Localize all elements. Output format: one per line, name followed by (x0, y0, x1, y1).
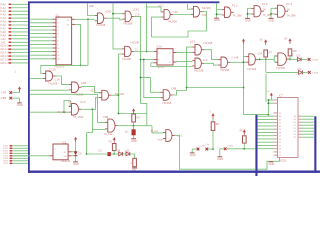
connector J2 pins with wires (3, 145, 28, 165)
wire U21 output long to U22 (118, 125, 152, 127)
svg-text:1-7647: 1-7647 (312, 59, 318, 61)
svg-text:P1.6: P1.6 (262, 2, 268, 6)
svg-text:1-7648: 1-7648 (312, 72, 318, 74)
wire U17 output to U18 (258, 59, 267, 61)
supply VCC arrow at IC5 (74, 137, 77, 143)
x no-connect C-360 (197, 144, 210, 150)
svg-text:C-361: C-361 (227, 145, 234, 147)
and-gate U1 (43, 67, 60, 85)
and-gate U7 (122, 8, 139, 26)
and-gate U16 (218, 57, 239, 73)
svg-text:D3: D3 (297, 53, 301, 57)
bus B4 right vertical (314, 116, 316, 173)
wire IC2 pin3 jog to U15 input B (151, 63, 192, 67)
svg-text:IC2A: IC2A (157, 46, 163, 49)
bus B2 bottom horizontal (28, 171, 320, 173)
svg-text:GND: GND (268, 18, 274, 22)
x second mark (205, 148, 208, 151)
svg-text:D1/7: D1/7 (3, 163, 8, 165)
and-gate U3 (99, 90, 124, 100)
svg-text:R8: R8 (293, 49, 297, 53)
and-gate U10 (222, 4, 242, 18)
svg-text:74LS08: 74LS08 (194, 69, 204, 73)
wire bus to U6 input A (88, 4, 95, 16)
capacitor C3 electrolytic (125, 126, 136, 136)
wire tap to U19 input A (140, 77, 161, 93)
svg-text:74_1532: 74_1532 (73, 115, 84, 119)
wire diode to ground (75, 156, 77, 162)
ground GND at IC5 (73, 162, 79, 166)
supply VCC arrow at IC3 (267, 91, 273, 96)
wire J2 pin5 to IC5 input (13, 155, 50, 157)
svg-text:GND: GND (17, 103, 23, 107)
svg-text:74LS08: 74LS08 (48, 81, 58, 85)
svg-text:3: 3 (158, 59, 159, 61)
supply VCC arrow at J-P5 (18, 86, 21, 92)
svg-text:IC7: IC7 (279, 95, 283, 98)
svg-text:45.6: 45.6 (91, 89, 96, 92)
svg-text:C4D: C4D (202, 13, 207, 17)
svg-text:5V: 5V (284, 39, 287, 41)
and-gate U14 (190, 39, 213, 55)
and-gate U18 (275, 53, 293, 70)
wire U1 output to U2 input A (56, 76, 69, 85)
wire U16 output to U17 inputs (230, 61, 243, 63)
wire bus to IC1 input pins (30, 19, 52, 59)
ground GND at U12 (268, 18, 274, 22)
bus B3 mid vertical (255, 114, 257, 176)
and-gate U17 (246, 53, 263, 71)
ground GND at net C-360 (190, 149, 196, 157)
svg-text:C6: C6 (68, 99, 72, 103)
wire U22 output down and along bottom (175, 136, 256, 170)
svg-text:1C1A: 1C1A (49, 67, 56, 71)
svg-text:V0: V0 (64, 152, 66, 154)
svg-text:p3.0: p3.0 (190, 39, 196, 43)
wire U19 output up (173, 91, 187, 96)
svg-text:D1: D1 (298, 67, 302, 71)
ground GND under C3 (131, 139, 137, 143)
svg-text:4-B6: 4-B6 (1, 96, 7, 100)
diode D7 small (126, 150, 131, 155)
ground GND at U10 (214, 18, 220, 22)
wire U14 output to U16 input A (204, 50, 218, 60)
and-gate U13 (122, 41, 140, 61)
wire U19 output up to U14 input A (187, 47, 193, 90)
wire between x and R5 junction (208, 148, 213, 150)
svg-text:J-P5: J-P5 (1, 91, 7, 95)
and-gate U12 (275, 2, 296, 17)
bus B1 left vertical (28, 1, 30, 173)
svg-text:C1.6: C1.6 (80, 100, 86, 104)
wire R3 bottom (113, 151, 115, 155)
svg-text:18: 18 (67, 25, 69, 27)
svg-text:74_386: 74_386 (233, 14, 242, 18)
svg-text:1C4D: 1C4D (105, 9, 112, 13)
svg-text:74LS08: 74LS08 (220, 68, 230, 72)
wire U12 inputs tied to ground (270, 8, 275, 18)
svg-text:A18 1-7: A18 1-7 (0, 62, 9, 65)
wire bus to U2 input B (30, 89, 69, 91)
x input 4-B6 to ground (1, 96, 20, 102)
wire bus to U9 input A (188, 4, 191, 9)
wire around to U1 input A (41, 65, 88, 73)
supply VCC arrow above R7 (260, 39, 267, 45)
svg-text:74LS08: 74LS08 (203, 41, 213, 45)
wire U2 output to U3 input A (81, 87, 99, 93)
IC1 left pin stubs with pin numbers (53, 19, 61, 61)
and-gate U21 (103, 115, 118, 136)
wire U6 output to U7 input B (107, 18, 123, 20)
svg-text:74HC14: 74HC14 (61, 159, 71, 163)
wire U18 inputs tied (267, 56, 275, 62)
wire lower diode net (266, 71, 299, 73)
svg-text:74LS08: 74LS08 (123, 21, 133, 25)
supply VCC arrow above R6 (240, 129, 246, 135)
svg-text:74_132: 74_132 (104, 132, 113, 136)
svg-text:C1A: C1A (55, 77, 60, 81)
wire U20 branch down to cap net (86, 129, 93, 155)
svg-text:74LS08: 74LS08 (168, 20, 178, 24)
svg-text:IC5: IC5 (63, 141, 67, 144)
wire IC3 right pins to bus B4 (302, 116, 315, 137)
svg-text:C4B: C4B (171, 86, 176, 90)
wire to x C-360 (192, 148, 196, 150)
resistor R5 (211, 122, 219, 131)
x no-connect net 1-7648 (308, 71, 318, 74)
svg-text:C-6: C-6 (135, 13, 140, 17)
wire diode D6 to D7 (123, 153, 126, 155)
wire R7 bottom to net (265, 57, 267, 59)
svg-text:6: 6 (169, 62, 170, 64)
wire R5 down to X net (212, 118, 214, 149)
x no-connect C-361 (224, 145, 234, 150)
and-gate U15 (192, 58, 208, 73)
diode D5 at IC5 (74, 151, 83, 155)
svg-text:2: 2 (158, 52, 159, 54)
wire mid horizontal to IC3 column (244, 114, 270, 116)
connector J1 pins 1-18 with wires to bus (0, 3, 28, 73)
resistor R7 (264, 50, 273, 57)
wire bus to U1 input B (30, 78, 43, 80)
svg-text:R2: R2 (137, 115, 141, 119)
wire staple to U20 input A (64, 101, 70, 113)
wire to x C-361 (220, 148, 224, 150)
svg-text:GND: GND (73, 162, 79, 166)
ground GND at net C-361 (217, 149, 223, 161)
wire cap to diode D6 (111, 153, 119, 155)
ground GND at U11 (245, 18, 251, 22)
svg-text:IC1: IC1 (56, 14, 61, 17)
svg-text:GND: GND (245, 18, 251, 22)
ground bar under R9 (132, 167, 138, 172)
resistor R3 (109, 140, 116, 150)
IC IC5 (49, 141, 72, 163)
IC1 right pin stubs (72, 19, 76, 24)
wire from bus down to IC2 data (146, 3, 148, 52)
wire bus to U21 input A (30, 94, 105, 122)
wire U15 output to U16 input B (204, 63, 218, 65)
svg-text:74_386: 74_386 (287, 13, 296, 17)
svg-text:19: 19 (67, 20, 69, 22)
resistor R8 (288, 49, 297, 56)
svg-text:C-148: C-148 (232, 57, 239, 60)
wire R2 bottom (133, 122, 135, 126)
resistor R2 (132, 114, 141, 122)
wire VCC to IC3 pin 1 (270, 96, 272, 100)
svg-text:GND: GND (214, 18, 220, 22)
wire bus to U20 input B (30, 111, 69, 113)
svg-text:74LS08: 74LS08 (162, 101, 172, 105)
supply VCC arrow above R8 (284, 38, 291, 44)
and-gate U22 (151, 130, 183, 142)
wire C3 to ground (133, 135, 135, 138)
svg-text:1A: 1A (263, 7, 266, 11)
wire U8 output to U9 input B (173, 14, 191, 16)
svg-text:4 pxx: 4 pxx (158, 139, 165, 142)
wire branch up to U3 input B (93, 98, 100, 110)
svg-text:82C55: 82C55 (279, 161, 286, 163)
wire IC2 Q to U14 input B (177, 52, 193, 54)
svg-text:5V: 5V (260, 40, 263, 42)
and-gate U8 (159, 3, 178, 23)
wire R8 bottom to diode net (289, 56, 291, 60)
wire jog down to U22 input (152, 126, 163, 133)
svg-text:74_206: 74_206 (58, 111, 67, 114)
svg-text:C1B: C1B (81, 81, 86, 85)
svg-text:GND: GND (190, 153, 196, 157)
and-gate U11 (251, 2, 272, 17)
diode D6 small (118, 150, 123, 155)
bus B1 top horizontal (28, 1, 220, 3)
wire U11 inputs tied to ground (247, 8, 252, 18)
wire diode D4 to no-connect (303, 71, 308, 73)
wire top to U8 input A (147, 7, 162, 12)
svg-text:1A: 1A (287, 8, 290, 12)
svg-text:C-6: C-6 (203, 58, 208, 62)
wire down from R7 net to lower diode row (265, 59, 267, 72)
ground GND at 4-B6 (17, 103, 23, 107)
wire VCC down to IC5 pins (72, 142, 77, 157)
IC IC1 74LS573 (54, 14, 72, 68)
diode D3 (297, 53, 302, 61)
junction at R5 net (212, 148, 214, 150)
svg-text:Tri_led: Tri_led (151, 130, 159, 133)
resistor R9 (131, 158, 137, 166)
wire vertical to lower diode net (265, 74, 267, 102)
svg-text:74LS08: 74LS08 (202, 6, 212, 10)
wire U3 output down to C3 net (111, 95, 146, 126)
wire bottom right to IC3 ground (258, 161, 271, 169)
supply VCC arrow above R5 (210, 112, 215, 119)
svg-text:1: 1 (55, 148, 56, 150)
wire U20 output to U21 input B (81, 108, 105, 129)
svg-text:p28: p28 (89, 4, 94, 8)
wire R6 bottom down (243, 143, 245, 149)
wire bus stub to U10 inputs (216, 3, 222, 18)
wire D7 to R9 (130, 154, 135, 158)
x input J-P5 to VCC (1, 91, 20, 95)
supply VCC arrow above U17 (242, 39, 245, 45)
wire U13 output to IC2 pin D (134, 51, 154, 53)
svg-text:C-360: C-360 (200, 146, 207, 148)
svg-text:p3.1: p3.1 (159, 3, 165, 7)
supply VCC arrow above R3 (113, 137, 116, 143)
diode D4 (298, 67, 303, 74)
and-gate U2 (69, 81, 87, 97)
and-gate U20 (58, 99, 87, 119)
IC3 ground pin to GND (268, 158, 279, 166)
IC3 pin stubs and numbers (274, 95, 302, 163)
wire bottom row left (87, 153, 107, 155)
svg-text:GND: GND (268, 162, 274, 166)
wire bus down to U7 input A and to U13 (112, 4, 122, 49)
wire IC2 clock input (141, 59, 155, 61)
svg-text:GND: GND (132, 169, 137, 171)
wire branch down right of IC1 (87, 19, 89, 65)
wire U17 inputs tied, long vertical down (243, 44, 246, 115)
and-gate U9 (191, 6, 211, 17)
wire IC2 /Q to U15 input A (177, 61, 193, 63)
svg-text:R7: R7 (269, 50, 273, 54)
wire diode D3 to no-connect (301, 58, 307, 60)
wire U13 input B from below (118, 54, 122, 114)
svg-text:P1.2: P1.2 (232, 4, 238, 8)
svg-text:GND: GND (131, 139, 137, 143)
svg-text:C3A: C3A (258, 53, 263, 56)
capacitor C2 (99, 149, 111, 156)
svg-text:C3B: C3B (103, 115, 108, 119)
wire IC3 upper-left pins (268, 99, 274, 115)
and-gate U19 (160, 86, 176, 105)
wire IC1 pin18 down right of IC1 (75, 24, 81, 66)
svg-text:74LS06: 74LS06 (247, 67, 257, 71)
wire U7 output down to IC2 clock (134, 16, 141, 103)
svg-text:GND: GND (217, 157, 223, 161)
wire U9 output feedback loop to U8 input B (152, 12, 207, 37)
IC IC2 74LS74 flip-flop (154, 46, 177, 69)
svg-text:C4A: C4A (173, 10, 178, 14)
wire bus B3 to IC3 left pins (258, 116, 274, 149)
svg-text:5: 5 (169, 52, 170, 54)
wire tap to U19 input B (143, 59, 160, 98)
svg-text:1C4C: 1C4C (133, 8, 140, 12)
x no-connect net 1-7647 (308, 58, 318, 61)
svg-text:74LS08: 74LS08 (96, 23, 106, 27)
svg-text:74LS08: 74LS08 (122, 57, 132, 61)
wire to R6 net (227, 148, 256, 150)
resistor R6 (243, 136, 247, 143)
wire long mid horizontal (186, 87, 244, 91)
svg-text:74LS08: 74LS08 (130, 41, 140, 45)
wire IC1 pin19 to U6 input B (75, 18, 95, 20)
supply VCC arrow above R2 (132, 108, 135, 114)
wire U18 output to diode D3 (288, 58, 297, 60)
and-gate U6 (95, 9, 112, 27)
svg-text:74LS06: 74LS06 (276, 66, 286, 70)
svg-text:P1.4: P1.4 (287, 2, 293, 6)
